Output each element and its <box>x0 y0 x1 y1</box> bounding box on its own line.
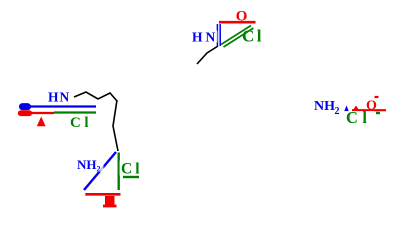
svg-text:Cl: Cl <box>346 108 372 127</box>
wire: red horizontal bond <box>352 109 386 111</box>
wire: red horizontal bond <box>30 112 54 114</box>
node superscript mark on O (red) <box>375 96 379 98</box>
wire: red N-O-H horizontal bond line <box>219 21 256 24</box>
wire: blue C=N double bond vertical <box>216 24 218 46</box>
wire: green C-Cl double diagonal <box>221 26 251 45</box>
node Cl (green) <box>120 161 143 176</box>
wire: blue bold cap dash <box>23 103 28 110</box>
svg-text:HN: HN <box>48 90 70 105</box>
svg-text:2: 2 <box>335 106 340 117</box>
wire: blue horizontal bond <box>29 105 96 107</box>
node NH2 (blue) <box>76 159 104 173</box>
svg-text:NH: NH <box>314 99 335 114</box>
wire: green small bar under Cl <box>123 176 139 178</box>
node HN (blue) <box>191 31 218 43</box>
wire: green horizontal bond <box>54 111 96 113</box>
wire: black vertical chain down to bottom fragment <box>113 100 118 151</box>
wire: black methyl tail <box>197 46 218 64</box>
node O (red, serif stem glyph below line) <box>105 196 115 206</box>
node minus superscript (green) <box>376 112 380 114</box>
node O (red, large) <box>365 95 379 109</box>
wire: red bold cap dash <box>21 110 29 116</box>
wire: blue C-N diagonal bond <box>84 152 116 190</box>
node O (red, below chain, drawn as small wedge glyph) <box>37 117 46 127</box>
node Cl (green) mask <box>240 28 265 43</box>
node O (top, red) <box>235 9 249 20</box>
svg-text:O: O <box>236 9 248 25</box>
svg-text:NH: NH <box>77 157 97 172</box>
node Cl- (green) <box>345 111 374 124</box>
svg-text:Cl: Cl <box>121 161 143 178</box>
wire: red horizontal bond at bottom <box>85 193 120 196</box>
node plus mark (blue) <box>344 106 349 112</box>
svg-text:Cl: Cl <box>70 115 92 131</box>
svg-text:2: 2 <box>97 165 101 174</box>
svg-text:HN: HN <box>192 29 218 44</box>
wire: green C-Cl vertical bond <box>117 153 119 191</box>
node Cl (green) <box>69 117 92 130</box>
node O-dash mark (red) <box>352 106 360 112</box>
svg-text:Cl: Cl <box>242 27 264 46</box>
node HN (blue) <box>47 91 72 103</box>
wire: black zigzag chain to junction <box>74 92 117 101</box>
